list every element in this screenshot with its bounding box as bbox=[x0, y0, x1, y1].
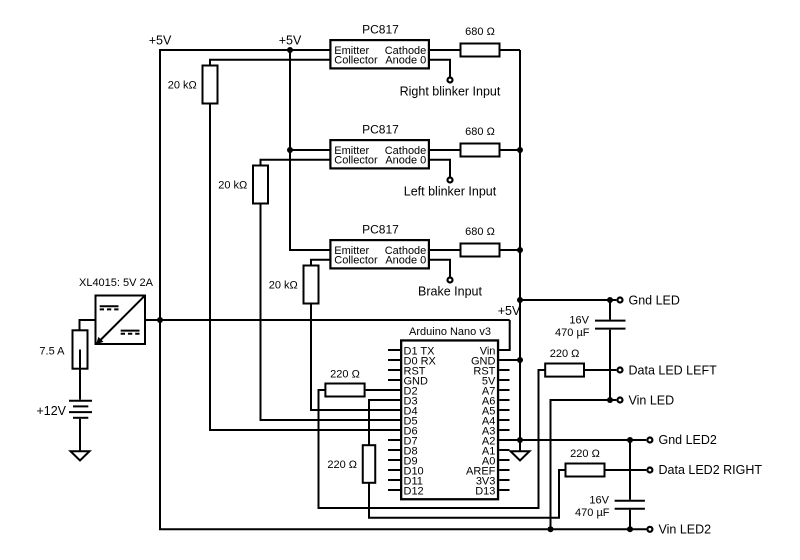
svg-text:Left blinker Input: Left blinker Input bbox=[404, 185, 497, 199]
svg-text:220 Ω: 220 Ω bbox=[550, 348, 580, 360]
svg-text:Brake Input: Brake Input bbox=[418, 285, 482, 299]
svg-text:470 µF: 470 µF bbox=[575, 507, 610, 519]
svg-text:470 µF: 470 µF bbox=[555, 327, 590, 339]
svg-text:Anode 0: Anode 0 bbox=[385, 255, 426, 267]
svg-text:XL4015: 5V 2A: XL4015: 5V 2A bbox=[79, 277, 154, 289]
svg-text:Collector: Collector bbox=[334, 55, 378, 67]
svg-text:16V: 16V bbox=[589, 495, 609, 507]
svg-text:+5V: +5V bbox=[498, 304, 521, 318]
svg-text:PC817: PC817 bbox=[362, 23, 399, 37]
svg-text:Collector: Collector bbox=[334, 255, 378, 267]
svg-text:Collector: Collector bbox=[334, 155, 378, 167]
svg-text:20 kΩ: 20 kΩ bbox=[269, 280, 298, 292]
svg-text:220 Ω: 220 Ω bbox=[570, 448, 600, 460]
svg-text:680 Ω: 680 Ω bbox=[465, 226, 495, 238]
svg-text:Vin LED2: Vin LED2 bbox=[659, 523, 712, 537]
svg-text:Gnd LED2: Gnd LED2 bbox=[659, 433, 717, 447]
svg-text:680 Ω: 680 Ω bbox=[465, 26, 495, 38]
svg-text:+12V: +12V bbox=[36, 404, 66, 418]
svg-text:680 Ω: 680 Ω bbox=[465, 126, 495, 138]
svg-text:D13: D13 bbox=[475, 485, 495, 497]
svg-text:+5V: +5V bbox=[149, 34, 172, 48]
svg-text:16V: 16V bbox=[569, 315, 589, 327]
svg-text:20 kΩ: 20 kΩ bbox=[218, 180, 247, 192]
svg-text:7.5 A: 7.5 A bbox=[39, 345, 65, 357]
svg-text:Data LED LEFT: Data LED LEFT bbox=[629, 363, 718, 377]
svg-text:Gnd LED: Gnd LED bbox=[629, 293, 680, 307]
svg-text:PC817: PC817 bbox=[362, 123, 399, 137]
svg-text:220 Ω: 220 Ω bbox=[327, 459, 357, 471]
svg-text:Data LED2 RIGHT: Data LED2 RIGHT bbox=[659, 463, 763, 477]
svg-text:Anode 0: Anode 0 bbox=[385, 55, 426, 67]
svg-text:Right blinker Input: Right blinker Input bbox=[400, 85, 501, 99]
svg-text:PC817: PC817 bbox=[362, 223, 399, 237]
svg-text:Anode 0: Anode 0 bbox=[385, 155, 426, 167]
svg-text:220 Ω: 220 Ω bbox=[330, 368, 360, 380]
svg-text:20 kΩ: 20 kΩ bbox=[168, 80, 197, 92]
svg-text:Arduino Nano v3: Arduino Nano v3 bbox=[409, 326, 491, 338]
svg-text:+5V: +5V bbox=[279, 34, 302, 48]
svg-text:D12: D12 bbox=[404, 485, 424, 497]
svg-text:Vin LED: Vin LED bbox=[629, 393, 675, 407]
